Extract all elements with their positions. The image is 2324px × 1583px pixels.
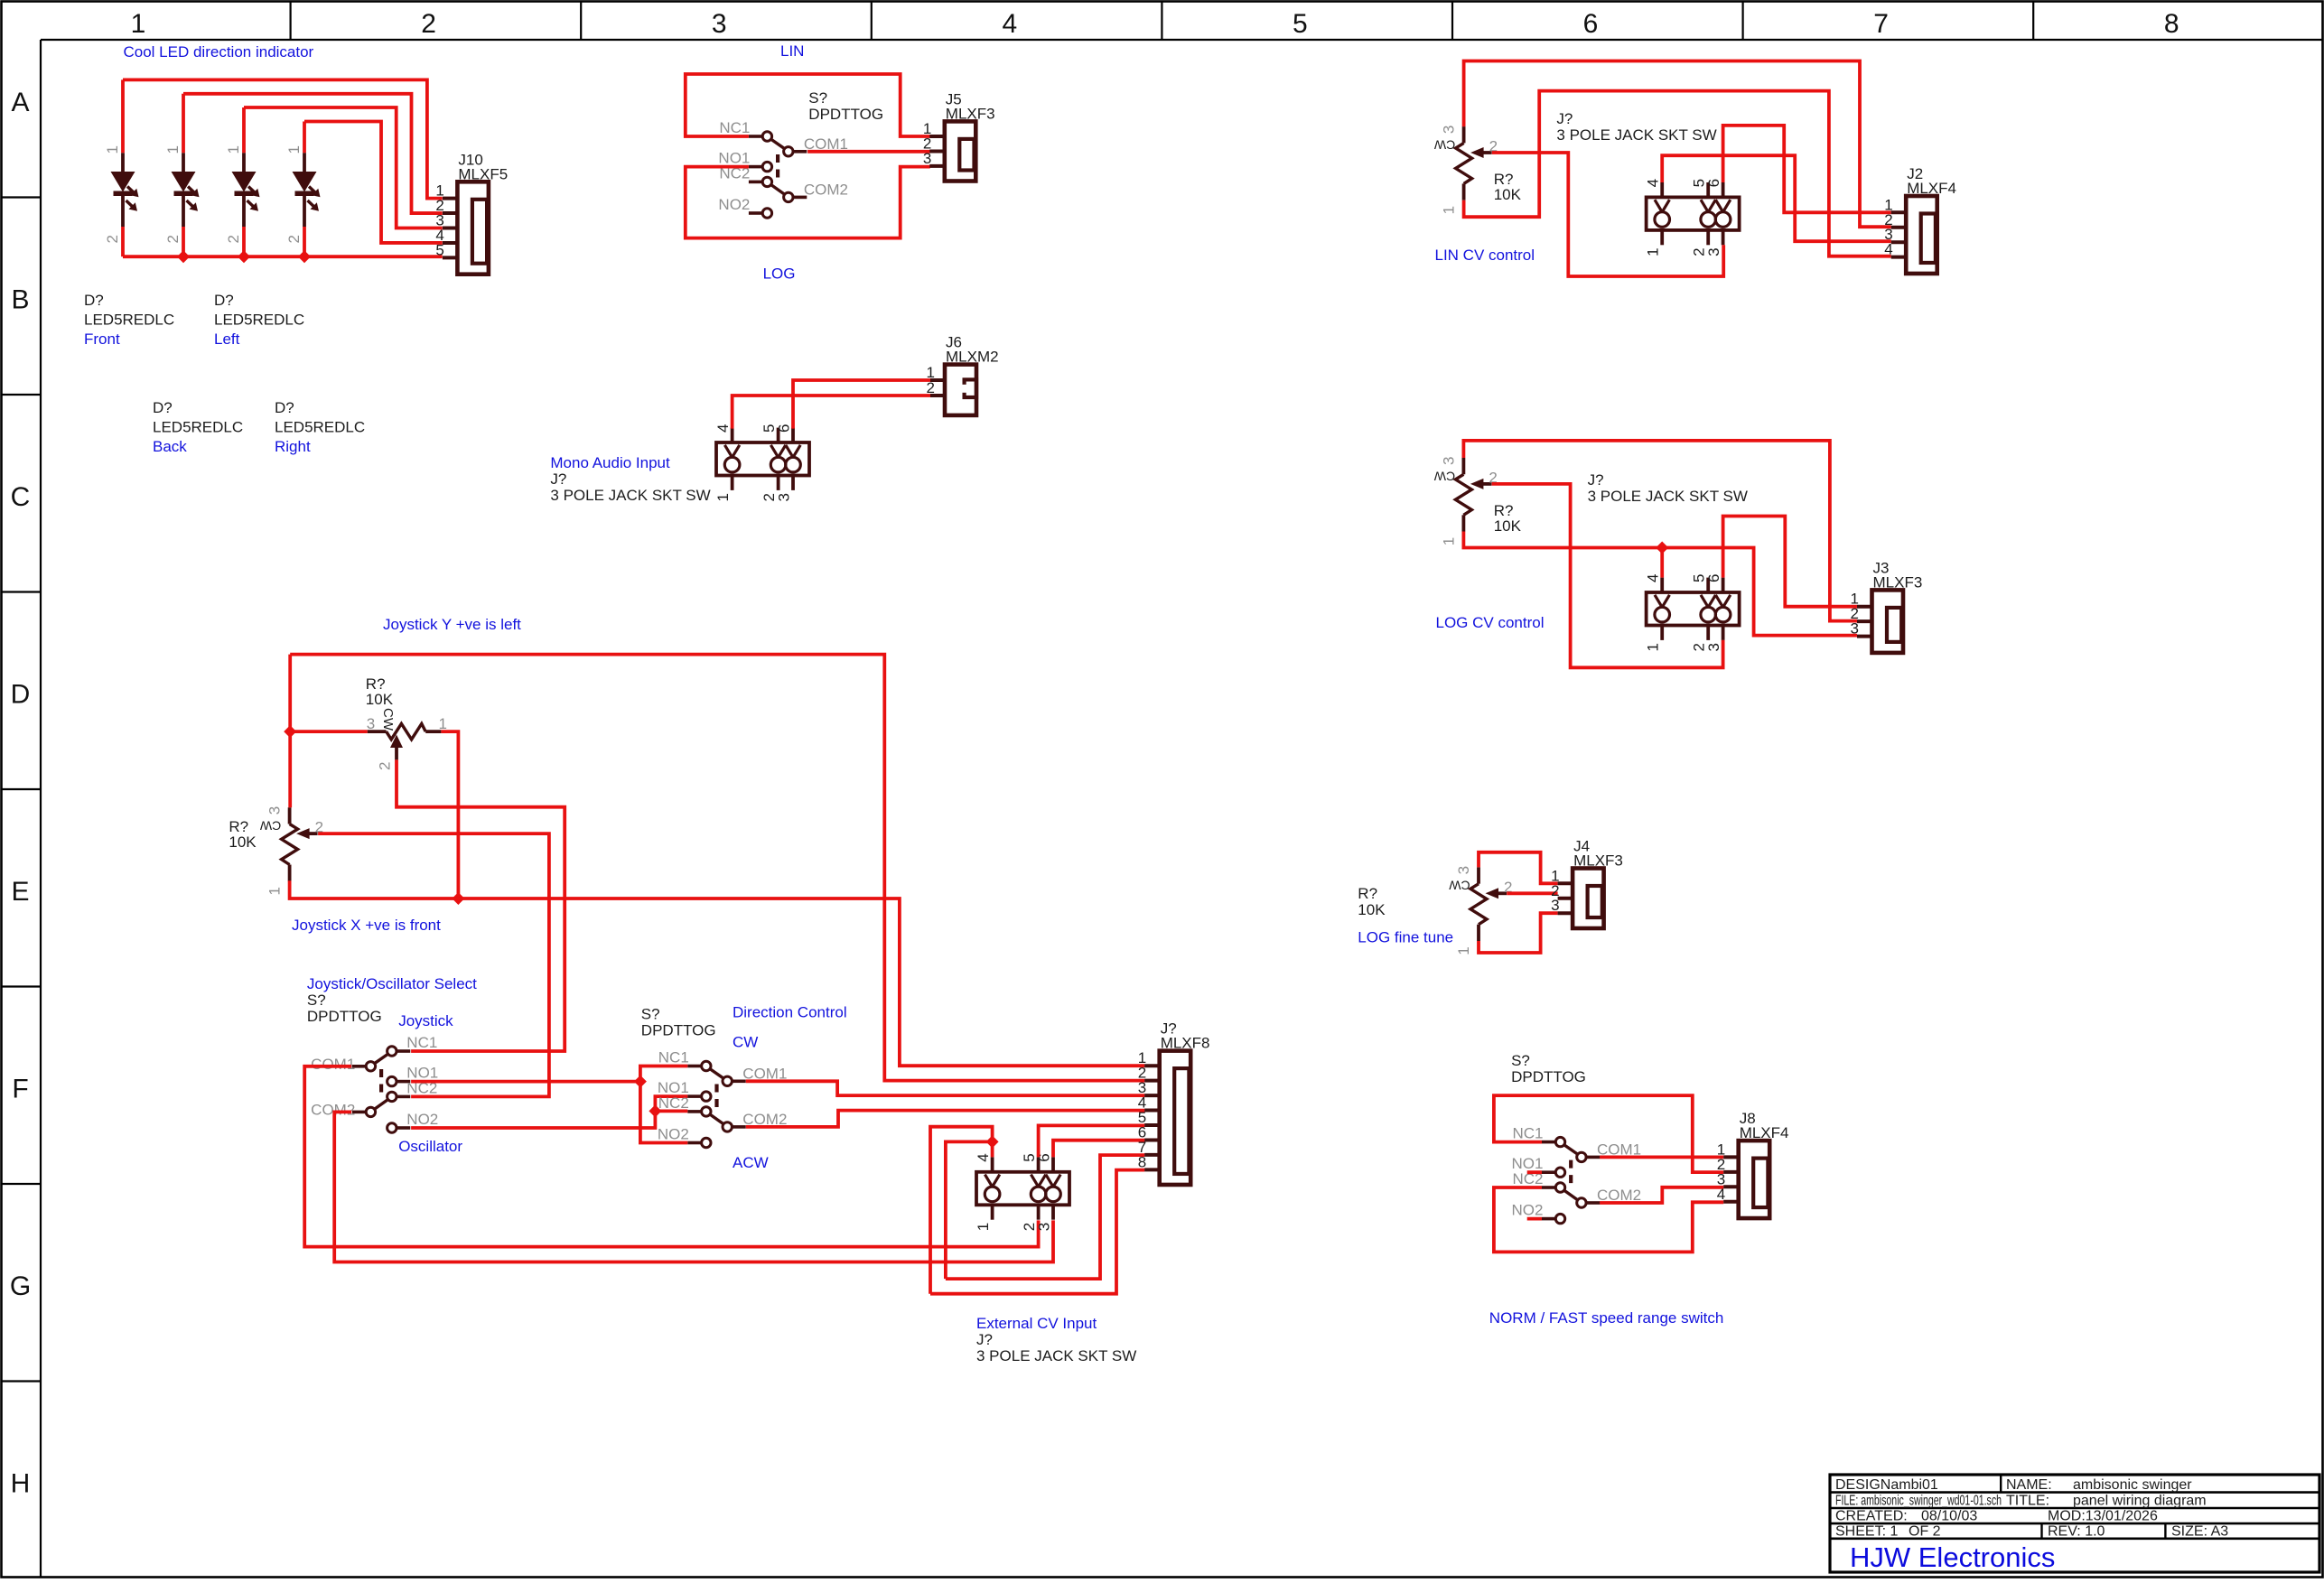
- svg-text:NC1: NC1: [719, 119, 750, 136]
- svg-text:3: 3: [1705, 643, 1722, 651]
- wire LED3 anode rail to J10 pin 3: [244, 107, 443, 228]
- svg-text:ambisonic swinger: ambisonic swinger: [2073, 1477, 2192, 1493]
- svg-text:1: 1: [1440, 537, 1457, 545]
- svg-text:2: 2: [421, 9, 436, 39]
- svg-text:1: 1: [714, 493, 732, 501]
- svg-text:NO2: NO2: [1512, 1202, 1544, 1219]
- svg-text:MLXF3: MLXF3: [1573, 852, 1623, 870]
- svg-text:HJW Electronics: HJW Electronics: [1850, 1541, 2055, 1573]
- svg-text:3 POLE JACK SKT SW: 3 POLE JACK SKT SW: [976, 1347, 1136, 1364]
- svg-text:SHEET: 1: SHEET: 1: [1835, 1524, 1898, 1540]
- svg-text:4: 4: [1645, 574, 1662, 582]
- wire select COM2 to Ext CV jack pin 3: [334, 1112, 1053, 1262]
- svg-text:J?: J?: [550, 470, 566, 488]
- svg-text:NO2: NO2: [718, 196, 750, 213]
- potentiometer R? joyX 10K (vertical): [259, 806, 323, 896]
- svg-text:S?: S?: [808, 89, 827, 107]
- svg-text:B: B: [11, 285, 29, 315]
- svg-text:FILE: ambisonic_swinger_wd01-0: FILE: ambisonic_swinger_wd01-01.sch: [1835, 1494, 2002, 1509]
- svg-text:10K: 10K: [1358, 901, 1386, 918]
- connector J5 MLXF3: [923, 90, 995, 181]
- svg-text:10K: 10K: [1494, 186, 1522, 203]
- svg-text:LED5REDLC: LED5REDLC: [153, 419, 243, 436]
- svg-text:Right: Right: [275, 438, 311, 455]
- wire select NO2 up to direction NO1/NC2: [411, 1096, 687, 1128]
- svg-text:D?: D?: [275, 399, 294, 416]
- svg-text:3: 3: [1455, 866, 1472, 874]
- LED D? Front: [104, 79, 139, 256]
- svg-text:10K: 10K: [1494, 517, 1522, 535]
- wire jack pin 5 to MLXF8 pin 5: [1039, 1125, 1145, 1157]
- wire LED cathode common rail to J10 pin 5: [123, 255, 443, 258]
- wire COM1 to J8 pin 1: [1600, 1156, 1723, 1159]
- svg-text:DESIGNambi01: DESIGNambi01: [1835, 1477, 1938, 1493]
- svg-text:LIN: LIN: [780, 42, 804, 60]
- svg-text:3 POLE JACK SKT SW: 3 POLE JACK SKT SW: [1588, 488, 1748, 505]
- wire jack pin 6 to MLXF8 pin 6: [1053, 1141, 1144, 1158]
- switch S? DPDTTOG NORM/FAST: [1542, 1137, 1600, 1223]
- svg-text:TITLE:: TITLE:: [2006, 1494, 2049, 1509]
- wire pot pin1 to J4 pin 3: [1479, 913, 1558, 953]
- wire NO1 stub: [1527, 1170, 1542, 1174]
- svg-text:Oscillator: Oscillator: [398, 1138, 462, 1155]
- wire select NO1 to direction switch NC1/NO2: [411, 1080, 640, 1084]
- junction pot pin1 / jack pin4: [1656, 542, 1668, 554]
- svg-text:1: 1: [131, 9, 146, 39]
- wire pot wiper to J4 pin 2: [1507, 891, 1557, 895]
- svg-text:1: 1: [1645, 643, 1662, 651]
- svg-text:6: 6: [1583, 9, 1599, 39]
- svg-text:CW: CW: [259, 819, 281, 833]
- svg-text:DPDTTOG: DPDTTOG: [641, 1021, 716, 1038]
- svg-text:Front: Front: [84, 331, 120, 348]
- wire pot pin1 to J2 pin 4: [1464, 91, 1891, 256]
- switch S? DPDTTOG joystick/oscillator select: [352, 1047, 410, 1132]
- junction NO1/NC2/select-NO2: [649, 1104, 661, 1117]
- wire LIN: NC1 to J5 pin 1: [686, 74, 930, 136]
- svg-text:NC1: NC1: [1512, 1125, 1543, 1142]
- connector J8 MLXF4: [1717, 1110, 1789, 1218]
- svg-text:Joystick X +ve is front: Joystick X +ve is front: [292, 917, 441, 934]
- svg-text:CW: CW: [733, 1034, 758, 1051]
- wire LED1 anode rail to J10 pin 1: [123, 79, 443, 198]
- wire COM2 to J8 pin 3: [1600, 1187, 1723, 1203]
- svg-text:A: A: [11, 88, 29, 117]
- connector J2 MLXF4: [1884, 165, 1956, 274]
- svg-text:COM2: COM2: [804, 181, 848, 198]
- svg-text:S?: S?: [641, 1005, 660, 1022]
- svg-text:4: 4: [1884, 241, 1892, 258]
- svg-text:DPDTTOG: DPDTTOG: [808, 106, 883, 123]
- potentiometer R? fine 10K (vertical): [1449, 866, 1513, 955]
- wire jack pin 4 to J6 pin 2: [733, 396, 930, 429]
- svg-text:SIZE: A3: SIZE: A3: [2171, 1524, 2228, 1540]
- svg-text:DPDTTOG: DPDTTOG: [307, 1008, 382, 1025]
- svg-text:S?: S?: [1511, 1052, 1530, 1069]
- wire LOG: NO1 to J5 pin 3: [686, 167, 930, 238]
- svg-text:MLXF3: MLXF3: [946, 105, 995, 122]
- jack text labels: [550, 454, 710, 504]
- wire pot wiper to jack pin 3: [1492, 484, 1723, 667]
- wire NC2 loop to J8 pin 4: [1494, 1187, 1723, 1252]
- svg-text:Direction Control: Direction Control: [733, 1003, 847, 1020]
- switch S? DPDTTOG (LIN/LOG select): [749, 132, 807, 218]
- svg-text:LED5REDLC: LED5REDLC: [275, 419, 365, 436]
- wire pot pin3 to J3 pin 2: [1463, 441, 1857, 621]
- svg-text:CW: CW: [1449, 879, 1470, 893]
- wire branch junction to jack pin 4: [1660, 548, 1664, 578]
- jack text labels: [976, 1315, 1136, 1364]
- svg-text:Mono Audio Input: Mono Audio Input: [550, 454, 670, 471]
- svg-text:Joystick: Joystick: [398, 1012, 453, 1029]
- svg-text:NO2: NO2: [406, 1111, 438, 1128]
- wire LED2 anode rail to J10 pin 2: [183, 94, 443, 213]
- potentiometer R? LIN 10K (vertical): [1433, 126, 1498, 215]
- svg-text:DPDTTOG: DPDTTOG: [1511, 1068, 1586, 1085]
- svg-text:10K: 10K: [229, 833, 257, 851]
- wire pot pin1 to jack pin4 and J3 pin 3: [1463, 532, 1857, 636]
- junction pot X bottom rail: [452, 892, 464, 905]
- svg-text:NC1: NC1: [658, 1049, 689, 1066]
- svg-text:7: 7: [1873, 9, 1889, 39]
- svg-text:1: 1: [104, 145, 121, 154]
- svg-text:08/10/03: 08/10/03: [1921, 1509, 1977, 1524]
- svg-text:Joystick/Oscillator Select: Joystick/Oscillator Select: [307, 975, 477, 992]
- wire loop B: [946, 1141, 993, 1279]
- svg-text:C: C: [11, 482, 31, 512]
- wire NC1 loop to J8 pin 2: [1494, 1095, 1723, 1172]
- svg-text:3: 3: [712, 9, 727, 39]
- svg-text:NC1: NC1: [406, 1034, 437, 1051]
- svg-text:MLXM2: MLXM2: [946, 349, 999, 366]
- svg-text:4: 4: [975, 1153, 992, 1161]
- svg-text:3: 3: [923, 150, 931, 167]
- svg-text:D?: D?: [84, 292, 104, 309]
- svg-text:E: E: [11, 877, 29, 907]
- svg-text:6: 6: [1705, 574, 1722, 582]
- svg-text:1: 1: [975, 1223, 992, 1231]
- wire pot pin3 to J2 pin 2: [1464, 61, 1891, 228]
- svg-text:NORM / FAST speed range switch: NORM / FAST speed range switch: [1489, 1309, 1724, 1327]
- junction LED2 cathode: [177, 250, 190, 263]
- connector J6 MLXM2: [927, 334, 999, 415]
- wire loop A bottom to MLXF8 pin 8: [930, 1170, 1144, 1294]
- svg-text:S?: S?: [307, 992, 326, 1009]
- svg-text:CW: CW: [1433, 469, 1455, 483]
- svg-text:1: 1: [1455, 946, 1472, 954]
- wire direction COM1 to MLXF8 pin 3: [746, 1081, 1145, 1095]
- svg-text:2: 2: [377, 762, 394, 770]
- svg-text:LOG: LOG: [763, 265, 796, 283]
- wire Ext CV jack pin4 to MLXF8 pins 7/8 loop A: [930, 1127, 993, 1294]
- svg-text:LED5REDLC: LED5REDLC: [214, 312, 304, 329]
- wire NO2 stub: [1527, 1217, 1542, 1221]
- svg-text:2: 2: [285, 235, 303, 243]
- svg-text:F: F: [12, 1075, 28, 1104]
- svg-text:MLXF5: MLXF5: [458, 165, 508, 182]
- wire pot Y pin1 down to X bottom rail: [441, 731, 458, 899]
- svg-text:NO2: NO2: [658, 1126, 689, 1143]
- wire pot wiper to jack pin 3: [1492, 153, 1723, 276]
- svg-text:D?: D?: [153, 399, 173, 416]
- svg-text:G: G: [10, 1271, 31, 1301]
- connector J? MLXF8: [1138, 1020, 1210, 1185]
- svg-text:MOD:13/01/2026: MOD:13/01/2026: [2048, 1509, 2158, 1524]
- connector J4 MLXF3: [1551, 838, 1623, 929]
- jack socket J? 3 POLE JACK SKT SW: [714, 424, 809, 502]
- svg-text:4: 4: [1002, 9, 1017, 39]
- potentiometer R? LOG 10K (vertical): [1433, 457, 1498, 546]
- svg-text:J?: J?: [1556, 110, 1573, 127]
- wire pot Y pin3 horizontal: [288, 655, 292, 808]
- svg-text:OF 2: OF 2: [1909, 1524, 1941, 1540]
- svg-text:4: 4: [1717, 1186, 1725, 1203]
- svg-text:MLXF8: MLXF8: [1161, 1035, 1210, 1052]
- svg-text:4: 4: [714, 424, 732, 433]
- junction jack pin4 / loop B: [986, 1135, 999, 1148]
- wire jack pin 6 to J2 pin 1: [1723, 126, 1891, 212]
- switch S? DPDTTOG direction control: [687, 1061, 745, 1147]
- LED D? Left: [164, 94, 200, 256]
- svg-text:2: 2: [164, 235, 182, 243]
- wire top rail pot Y pin3 branch down to pot X pin3: [290, 655, 1144, 1081]
- svg-text:2: 2: [927, 379, 935, 396]
- junction select NO1 into NC1/NO2 tie: [634, 1076, 647, 1088]
- svg-text:MLXF4: MLXF4: [1740, 1124, 1789, 1141]
- wire jack pin 6 to J6 pin 1: [793, 380, 930, 429]
- svg-text:3 POLE JACK SKT SW: 3 POLE JACK SKT SW: [1556, 126, 1716, 144]
- svg-text:8: 8: [1138, 1153, 1146, 1170]
- svg-text:Joystick Y +ve is left: Joystick Y +ve is left: [383, 616, 521, 633]
- svg-text:3: 3: [1851, 620, 1859, 638]
- svg-text:3: 3: [367, 715, 375, 732]
- svg-text:LIN CV control: LIN CV control: [1435, 247, 1535, 264]
- svg-text:2: 2: [225, 235, 242, 243]
- svg-text:D?: D?: [214, 292, 234, 309]
- svg-text:3: 3: [1551, 897, 1559, 914]
- svg-text:H: H: [11, 1469, 31, 1499]
- svg-text:LOG CV control: LOG CV control: [1436, 614, 1545, 631]
- svg-text:J?: J?: [976, 1331, 993, 1348]
- svg-text:D: D: [11, 680, 31, 710]
- svg-text:ACW: ACW: [733, 1154, 769, 1171]
- svg-text:3: 3: [1440, 457, 1457, 465]
- svg-text:MLXF4: MLXF4: [1907, 180, 1956, 197]
- svg-text:1: 1: [266, 887, 284, 895]
- row reference letters A-H: [10, 88, 31, 1499]
- wire pot pin3 to J4 pin 1: [1479, 852, 1558, 884]
- wire pot X wiper to select switch NC2: [318, 833, 549, 1096]
- svg-text:3: 3: [266, 806, 284, 815]
- jack socket J? 3 POLE JACK SKT SW: [975, 1153, 1069, 1231]
- svg-text:LOG fine tune: LOG fine tune: [1358, 929, 1453, 946]
- svg-text:3: 3: [1705, 247, 1722, 256]
- svg-text:Left: Left: [214, 331, 240, 348]
- title block: [1830, 1475, 2319, 1572]
- svg-text:1: 1: [1441, 206, 1458, 214]
- wire pot Y wiper to select switch NC1: [397, 759, 565, 1051]
- wire COM1 to J5 pin 2: [807, 150, 930, 154]
- connector J10 MLXF5: [435, 151, 508, 274]
- junction LED4 cathode: [298, 250, 311, 263]
- svg-text:Cool LED direction indicator: Cool LED direction indicator: [124, 43, 314, 61]
- svg-text:5: 5: [435, 241, 443, 258]
- jack socket 3 POLE JACK SKT SW: [1645, 574, 1740, 652]
- wire LED4 anode rail to J10 pin 4: [304, 122, 443, 243]
- svg-text:R?: R?: [1358, 885, 1377, 902]
- wire select COM1 to Ext CV jack pin 2: [304, 1066, 1038, 1247]
- svg-text:3: 3: [1036, 1223, 1053, 1231]
- svg-text:NAME:: NAME:: [2006, 1477, 2052, 1493]
- svg-text:4: 4: [1645, 179, 1662, 187]
- svg-text:REV: 1.0: REV: 1.0: [2048, 1524, 2105, 1540]
- svg-text:1: 1: [285, 145, 303, 154]
- wire pot X pin1 bottom rail to MLXF8 pin 1: [290, 880, 1145, 1066]
- wire direction NC1-NO2 tie: [640, 1066, 687, 1143]
- column reference numbers 1-8: [131, 9, 2179, 39]
- svg-text:8: 8: [2164, 9, 2179, 39]
- svg-text:5: 5: [1293, 9, 1308, 39]
- wire jack pin 4 to J2 pin 3: [1662, 155, 1891, 241]
- junction pot Y pin3: [284, 725, 296, 738]
- svg-text:CW: CW: [1433, 137, 1455, 152]
- connector J3 MLXF3: [1851, 559, 1923, 653]
- svg-text:NC2: NC2: [658, 1094, 689, 1112]
- svg-text:2: 2: [104, 235, 121, 243]
- wire loop B bottom to MLXF8 pin 7: [946, 1155, 1144, 1279]
- svg-text:MLXF3: MLXF3: [1873, 573, 1923, 591]
- svg-text:1: 1: [225, 145, 242, 154]
- wire direction NC2 branch: [655, 1110, 687, 1113]
- svg-text:3 POLE JACK SKT SW: 3 POLE JACK SKT SW: [550, 487, 710, 504]
- svg-text:CW: CW: [380, 708, 396, 731]
- title block texts: [1835, 1477, 2228, 1540]
- svg-text:J?: J?: [1588, 471, 1604, 489]
- junction LED3 cathode: [238, 250, 250, 263]
- svg-text:3: 3: [1441, 126, 1458, 134]
- svg-text:6: 6: [776, 424, 793, 433]
- svg-text:3: 3: [776, 493, 793, 501]
- svg-text:External CV Input: External CV Input: [976, 1315, 1097, 1332]
- wire direction COM2 to MLXF8 pin 4: [746, 1111, 1145, 1127]
- svg-text:1: 1: [1645, 247, 1662, 256]
- jack socket 3 POLE JACK SKT SW: [1645, 179, 1740, 256]
- svg-text:1: 1: [164, 145, 182, 154]
- LED reference labels D? LED5REDLC Front/Left/Back/Right: [84, 292, 365, 455]
- svg-text:LED5REDLC: LED5REDLC: [84, 312, 174, 329]
- svg-text:6: 6: [1705, 179, 1722, 187]
- svg-text:10K: 10K: [366, 691, 394, 708]
- svg-text:Back: Back: [153, 438, 187, 455]
- LED D? Right: [285, 122, 321, 257]
- svg-text:panel wiring diagram: panel wiring diagram: [2073, 1494, 2207, 1509]
- svg-text:COM1: COM1: [311, 1056, 355, 1073]
- svg-text:CREATED:: CREATED:: [1835, 1509, 1908, 1524]
- wire jack pin 6 to J3 pin 1: [1723, 517, 1857, 607]
- potentiometer R? 10K joystick Y (horizontal): [367, 708, 447, 770]
- LED D? Back: [225, 107, 260, 256]
